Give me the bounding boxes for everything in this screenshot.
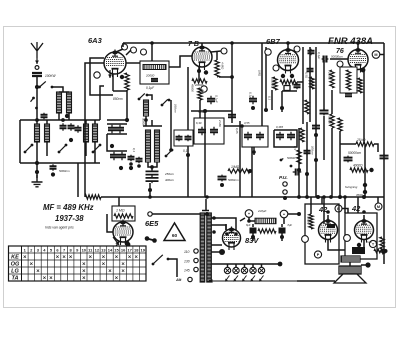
svg-text:6,30: 6,30 [196, 121, 202, 125]
grid cap 7B [221, 48, 227, 54]
wire R22 feed [310, 197, 312, 214]
svg-text:P.U.: P.U. [279, 175, 288, 181]
label 5000cm C23 [228, 178, 239, 182]
wire tr top [202, 210, 209, 212]
wave band table [9, 246, 147, 281]
wire col 332 low [331, 128, 333, 197]
PU dot [283, 196, 287, 200]
output stage box [305, 204, 339, 264]
wire L3b stem [94, 142, 96, 163]
trimmer capacitor C19 [244, 132, 252, 141]
node osc j1 [110, 144, 114, 148]
speaker housing [339, 266, 361, 274]
node padding [148, 188, 152, 192]
svg-text:KE: KE [11, 254, 19, 260]
trimmer capacitor C16 [198, 127, 206, 136]
node 6E5 k [126, 242, 131, 247]
trimmer box B [242, 126, 268, 147]
svg-text:42: 42 [351, 204, 361, 213]
label 0.25Mohm [271, 78, 275, 89]
svg-text:250cm: 250cm [164, 172, 175, 176]
node osc j2 [119, 166, 123, 170]
wire L2b stem top [46, 120, 48, 124]
resistor R15 [330, 114, 334, 128]
wire plus2 lead [283, 218, 285, 224]
wire x188 vertical [187, 67, 189, 197]
node 7B cathode [197, 69, 201, 73]
svg-text:19: 19 [140, 247, 145, 252]
node rect leg1 [225, 232, 229, 236]
node bus318 [316, 195, 320, 199]
IF transformer T1 winding [143, 65, 166, 70]
node top bus 288 [286, 41, 290, 45]
antenna terminal [35, 66, 39, 70]
label 0.1uF T1 [146, 86, 155, 90]
node R2 link [230, 75, 234, 79]
label 5000cm [59, 169, 70, 173]
label 0.1 col272 [268, 96, 272, 100]
svg-text:50000: 50000 [287, 156, 296, 160]
wire 6B7 down [281, 91, 283, 112]
wire out stub 324 [323, 197, 325, 224]
label 50000cm mid [348, 151, 361, 155]
svg-text:TA: TA [11, 275, 18, 281]
wire plus1 lead [249, 217, 255, 221]
svg-text:16: 16 [121, 247, 126, 252]
band coil L3a [84, 124, 89, 142]
antenna [31, 42, 43, 58]
wire L5a to padding [148, 162, 157, 167]
label 0.1 C27 [317, 52, 321, 59]
wire padding stem [149, 183, 151, 197]
padding capacitor C11 [146, 169, 159, 176]
1M resistor box [112, 206, 135, 221]
dial lamp DL4 [250, 267, 256, 273]
node antenna junction [35, 85, 39, 89]
circle under 76 [337, 61, 343, 67]
capacitor C27 [308, 49, 315, 55]
terminal M2 [375, 203, 382, 210]
svg-text:FNR 438A: FNR 438A [328, 36, 373, 47]
label 350 ohm [356, 193, 364, 197]
label 1Mohm col [258, 70, 262, 77]
label 45000 [191, 84, 195, 92]
node R5 right [248, 169, 252, 173]
wire R17 right [374, 144, 378, 152]
wire 6A3 screen box [90, 58, 113, 95]
wire trimmer frame [274, 130, 297, 147]
76 grid capacitor C29 [322, 56, 329, 63]
label 20000 [145, 74, 155, 78]
band switch S4 [58, 144, 68, 154]
svg-text:1 MΩ: 1 MΩ [116, 209, 125, 213]
trimmer capacitor C17 [210, 127, 218, 136]
electrolytic capacitor CE2 [279, 228, 286, 234]
filter terminal plus1 [245, 210, 253, 218]
svg-text:×: × [102, 261, 106, 267]
label R22 [307, 216, 311, 224]
node C25 [251, 106, 255, 110]
label 20000 R3 [194, 83, 204, 87]
wire bus drop to tube [122, 43, 124, 47]
wire 6B7 res link [282, 90, 297, 92]
svg-text:Inds van agent pris: Inds van agent pris [45, 226, 74, 230]
node tr lead mid [219, 249, 225, 255]
rectifier tube 83V [223, 227, 241, 251]
node 6A3 cathode [120, 75, 124, 79]
wire 6E5 box top [118, 197, 120, 206]
node CE1 [251, 235, 255, 239]
osc capacitor C36 [128, 155, 135, 161]
terminal pot [314, 251, 321, 258]
wire lamp bus [211, 263, 280, 265]
svg-text:130: 130 [184, 260, 190, 264]
node right mid c [314, 158, 318, 162]
node x171 end [169, 148, 173, 152]
dial lamp triangle [164, 223, 185, 241]
node 266 end [264, 108, 268, 112]
dial lamp DL2 [233, 267, 239, 273]
wire 76 plate [357, 43, 359, 49]
terminal b [201, 86, 207, 92]
wire L2a stem top [36, 120, 38, 124]
svg-text:0,1μF: 0,1μF [215, 95, 219, 103]
output transformer [341, 256, 360, 262]
node ground bus 2 [35, 170, 39, 174]
svg-text:18: 18 [134, 247, 139, 252]
IF trimmer C6 [151, 79, 158, 81]
aerial switch S1 [38, 81, 53, 88]
wire osc caps top [107, 123, 127, 125]
capacitor C26 [294, 83, 301, 89]
osc switch S7 [161, 99, 171, 107]
bypass capacitor C15 [207, 96, 215, 105]
second detector tube 6B7 [278, 47, 299, 74]
node R18 right [369, 168, 373, 172]
wire col 266 [265, 47, 267, 110]
label 42 a [318, 205, 328, 214]
lamp lead arrow 2 [234, 276, 239, 282]
wire y144 link [340, 143, 356, 145]
label 2Mohm [218, 119, 222, 128]
osc resistor R1 [125, 73, 129, 90]
wire antenna down 1 [36, 77, 38, 87]
svg-text:1/MΩ: 1/MΩ [231, 165, 240, 169]
selector terminal 110 [194, 249, 198, 253]
label 6A3 [88, 36, 103, 45]
svg-text:850cm: 850cm [113, 97, 123, 101]
lamp stem 5 [261, 264, 263, 267]
label 850cm [113, 97, 123, 101]
tone capacitor block [352, 247, 365, 254]
svg-text:LG: LG [11, 268, 19, 274]
capacitor C34 [304, 149, 311, 155]
label 0.25 col [235, 128, 239, 134]
svg-text:25 kΩ: 25 kΩ [356, 138, 366, 142]
label 0.1uF 7B [215, 95, 219, 103]
label 1 Mohm R5 [231, 165, 240, 169]
label 3.55 boxB [244, 121, 250, 125]
terminal B [335, 205, 342, 212]
electrolytic capacitor CE1 [250, 228, 257, 234]
wire osc switch link [147, 95, 152, 100]
trimmer box A [194, 118, 224, 144]
svg-text:0,1: 0,1 [268, 96, 272, 100]
svg-text:OG: OG [11, 261, 20, 267]
wire 6A3 legs down [112, 74, 114, 91]
wire filter drop2 [281, 233, 283, 241]
wire col 262 [261, 43, 263, 126]
osc tuning coil L5a [146, 130, 151, 162]
wire mid col 252 [251, 147, 253, 197]
wire L1 bottoms [58, 113, 60, 120]
node audio [220, 183, 224, 187]
svg-text:0,1: 0,1 [132, 148, 136, 152]
76 cathode box [340, 67, 357, 93]
node osc bus [125, 118, 129, 122]
svg-text:M: M [377, 205, 380, 209]
AVC capacitor C18 [228, 112, 236, 121]
label PU [279, 175, 288, 181]
node C36 [129, 162, 133, 166]
band capacitor C4 [75, 125, 82, 132]
node top bus 152 [150, 41, 154, 45]
selector terminal 130 [194, 258, 198, 262]
label 76 [336, 48, 344, 55]
svg-text:5000cm: 5000cm [59, 169, 70, 173]
svg-text:2x8μF: 2x8μF [257, 209, 266, 213]
coupling capacitor C13 [176, 135, 183, 142]
PU switch S9 [280, 159, 293, 168]
band switch S5 [92, 144, 102, 154]
label 50000 osc [142, 118, 146, 126]
dial lamp DL3 [241, 267, 247, 273]
antenna coil L1b [67, 92, 72, 113]
wire x171 vertical [170, 100, 172, 150]
speaker terminal [365, 262, 370, 267]
PU resistor R6 [300, 128, 304, 142]
gram terminal [148, 212, 152, 216]
svg-text:Tone: Tone [366, 240, 372, 244]
lamp stem 1 [227, 264, 229, 267]
svg-text:6,5Ω: 6,5Ω [305, 72, 309, 79]
wire R2 top [216, 52, 218, 60]
antenna lead-in arrow [35, 58, 39, 64]
wire coil bank top bus [20, 119, 100, 121]
node stub324 [322, 195, 326, 199]
capacitor C28 [307, 67, 314, 73]
node AVC mid2 [205, 195, 209, 199]
node choke in [247, 219, 251, 223]
node right mid a [297, 168, 301, 172]
resistor R4 [198, 88, 202, 100]
label 0.465 boxC [276, 125, 283, 129]
resistor R14 [358, 78, 362, 93]
wave switch S2 [31, 97, 38, 110]
wire rect to plus [240, 218, 245, 221]
band capacitor C2 [60, 123, 67, 130]
antenna trim capacitor C1 [41, 113, 48, 119]
audio capacitor C23 [218, 175, 227, 182]
wire x100 rise [100, 86, 104, 120]
wire 83V plate links2 [235, 224, 237, 230]
wire speaker terminal [361, 264, 368, 266]
output stage box2 [345, 213, 377, 259]
node filter out [297, 212, 301, 216]
chassis ground [32, 175, 43, 187]
svg-text:4000Ω: 4000Ω [353, 164, 363, 168]
label Alt [175, 277, 182, 282]
label 8uF b [288, 223, 293, 227]
cathode capacitor C30 [345, 94, 352, 96]
wire 7B col down [199, 100, 201, 118]
wire L1b bottom [68, 113, 70, 120]
lamp lead arrow 4 [251, 276, 256, 282]
label FNR 438A [328, 36, 373, 47]
wire col 303 [302, 47, 304, 124]
wire AVC bus [101, 196, 384, 198]
wire 76 grid [330, 58, 348, 60]
label R15 [328, 116, 332, 124]
node top bus 358 [356, 41, 360, 45]
diode resistor R7 [280, 80, 297, 84]
label 160cm [174, 104, 178, 113]
node right mid b [305, 172, 309, 176]
power transformer primary [200, 213, 205, 282]
label note [45, 226, 74, 230]
node 42b top [362, 210, 366, 214]
lamp lead arrow 1 [225, 276, 230, 282]
trimmer capacitor C21 [276, 132, 284, 141]
label 6.30 boxA [196, 121, 202, 125]
osc switch S8 [165, 149, 174, 158]
lamp stem 2 [235, 264, 237, 267]
mains switch S10 [152, 255, 170, 266]
wire out link1 [328, 240, 345, 250]
wire heater line right [297, 280, 335, 282]
node 6B7 d3 [280, 106, 284, 110]
node stub345 [343, 195, 347, 199]
wire mid col 205 [204, 111, 206, 197]
label tone [366, 240, 372, 244]
node 7B under bus [203, 109, 207, 113]
wire L2b stem [46, 142, 48, 156]
dial lamp DL1 [224, 267, 230, 273]
grid cap 6B7 k [273, 65, 279, 71]
speaker cone [334, 274, 366, 283]
wire T1 to 7B grid [169, 56, 192, 67]
svg-text:3,55: 3,55 [244, 121, 250, 125]
wire 6B7 cap link [297, 81, 303, 83]
wire col 340 low [339, 131, 341, 197]
wire tr feed [205, 199, 207, 211]
wire col 332 [331, 90, 333, 114]
svg-text:110: 110 [184, 250, 190, 254]
resistor R11 [305, 100, 309, 114]
wire tr bracket2 [211, 225, 226, 230]
svg-text:50000: 50000 [142, 118, 146, 126]
svg-text:MF = 489 KHz: MF = 489 KHz [43, 203, 94, 212]
lamp stem 3 [244, 264, 246, 267]
grid cap g2 [131, 47, 137, 53]
bypass capacitor C5 [50, 164, 57, 170]
filter choke [255, 218, 276, 224]
dial lamp DL5 [258, 267, 264, 273]
wire col272 [271, 90, 273, 110]
band coil L2a [35, 124, 40, 142]
svg-text:14: 14 [108, 247, 113, 252]
wire L3b stem top [94, 120, 96, 124]
label 1 Mohm box [116, 209, 125, 213]
node out1 [357, 243, 361, 247]
wire col 310 [309, 47, 311, 122]
wire col 324 [323, 60, 325, 110]
wire L2 stems [36, 142, 38, 163]
wire M2 stub [377, 197, 379, 203]
node trimmer out B [252, 150, 256, 154]
wire col 324 low [323, 116, 325, 160]
wire 7B plate [201, 43, 203, 47]
svg-text:0,1μF: 0,1μF [146, 86, 155, 90]
wire L3 stems [85, 142, 87, 156]
wire 76 col down [363, 70, 365, 144]
tuning eye 6E5 [113, 220, 133, 246]
node top bus 232 [230, 41, 234, 45]
AVC resistor R19 [85, 195, 101, 199]
svg-text:10: 10 [82, 247, 87, 252]
label 0.5 mid [293, 146, 297, 150]
wire L5 top [143, 125, 162, 127]
label 100cm mid [311, 146, 315, 155]
svg-text:500: 500 [375, 240, 379, 245]
label 500 ohm [375, 240, 379, 245]
wire osc bus y120 [107, 119, 127, 121]
svg-text:0,465: 0,465 [276, 125, 283, 129]
node boxB in [240, 124, 244, 128]
cathode resistor R12 [346, 70, 350, 90]
wire tr lead mid2 [211, 251, 222, 253]
coupling capacitor C14 [185, 135, 192, 142]
wire 6A3 plate to T1 [126, 62, 140, 64]
svg-text:×: × [36, 268, 40, 274]
svg-text:Svingning: Svingning [345, 185, 358, 189]
76 cathode arrow [349, 66, 353, 74]
label 400cm [165, 178, 175, 182]
antenna coil L1a [57, 92, 62, 113]
antenna series capacitor C_a [32, 73, 42, 76]
wire 7B grid cap lead [211, 51, 221, 52]
svg-text:20000: 20000 [328, 71, 332, 80]
node 6B7 d1 [281, 74, 285, 78]
band coil L3b [93, 124, 98, 142]
wire out stub 358 [357, 197, 359, 213]
label 145 [184, 269, 190, 273]
filter terminal plus2 [280, 210, 288, 218]
wire R2 bottom link [219, 76, 232, 78]
resistor R9 [273, 77, 277, 90]
wire out stub 345 [344, 197, 346, 213]
label 100KW [45, 74, 56, 78]
label 8uF a [246, 223, 251, 227]
label 50000cm 76 [331, 55, 343, 59]
label 2x8 [257, 209, 266, 213]
trimmer capacitor C22 [287, 132, 295, 141]
terminal a [94, 72, 100, 78]
node osc j3 [129, 166, 133, 170]
osc switch S6 [138, 93, 149, 100]
wire 83V plate links [225, 224, 227, 230]
driver tube 76 [348, 47, 368, 73]
